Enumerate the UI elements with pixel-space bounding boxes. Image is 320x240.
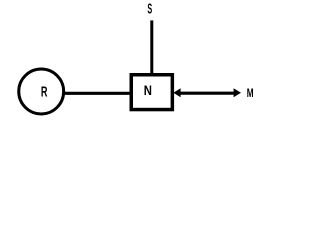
svg-text:N: N: [144, 82, 152, 98]
double-headed arrow between N and M: [173, 88, 241, 97]
svg-text:S: S: [147, 1, 152, 17]
wire from S to node N: [150, 20, 153, 74]
svg-text:M: M: [247, 87, 254, 100]
node R (circle): [19, 69, 64, 114]
wire from R to N: [64, 92, 131, 95]
node N (square): [131, 75, 172, 110]
svg-text:R: R: [41, 84, 48, 100]
